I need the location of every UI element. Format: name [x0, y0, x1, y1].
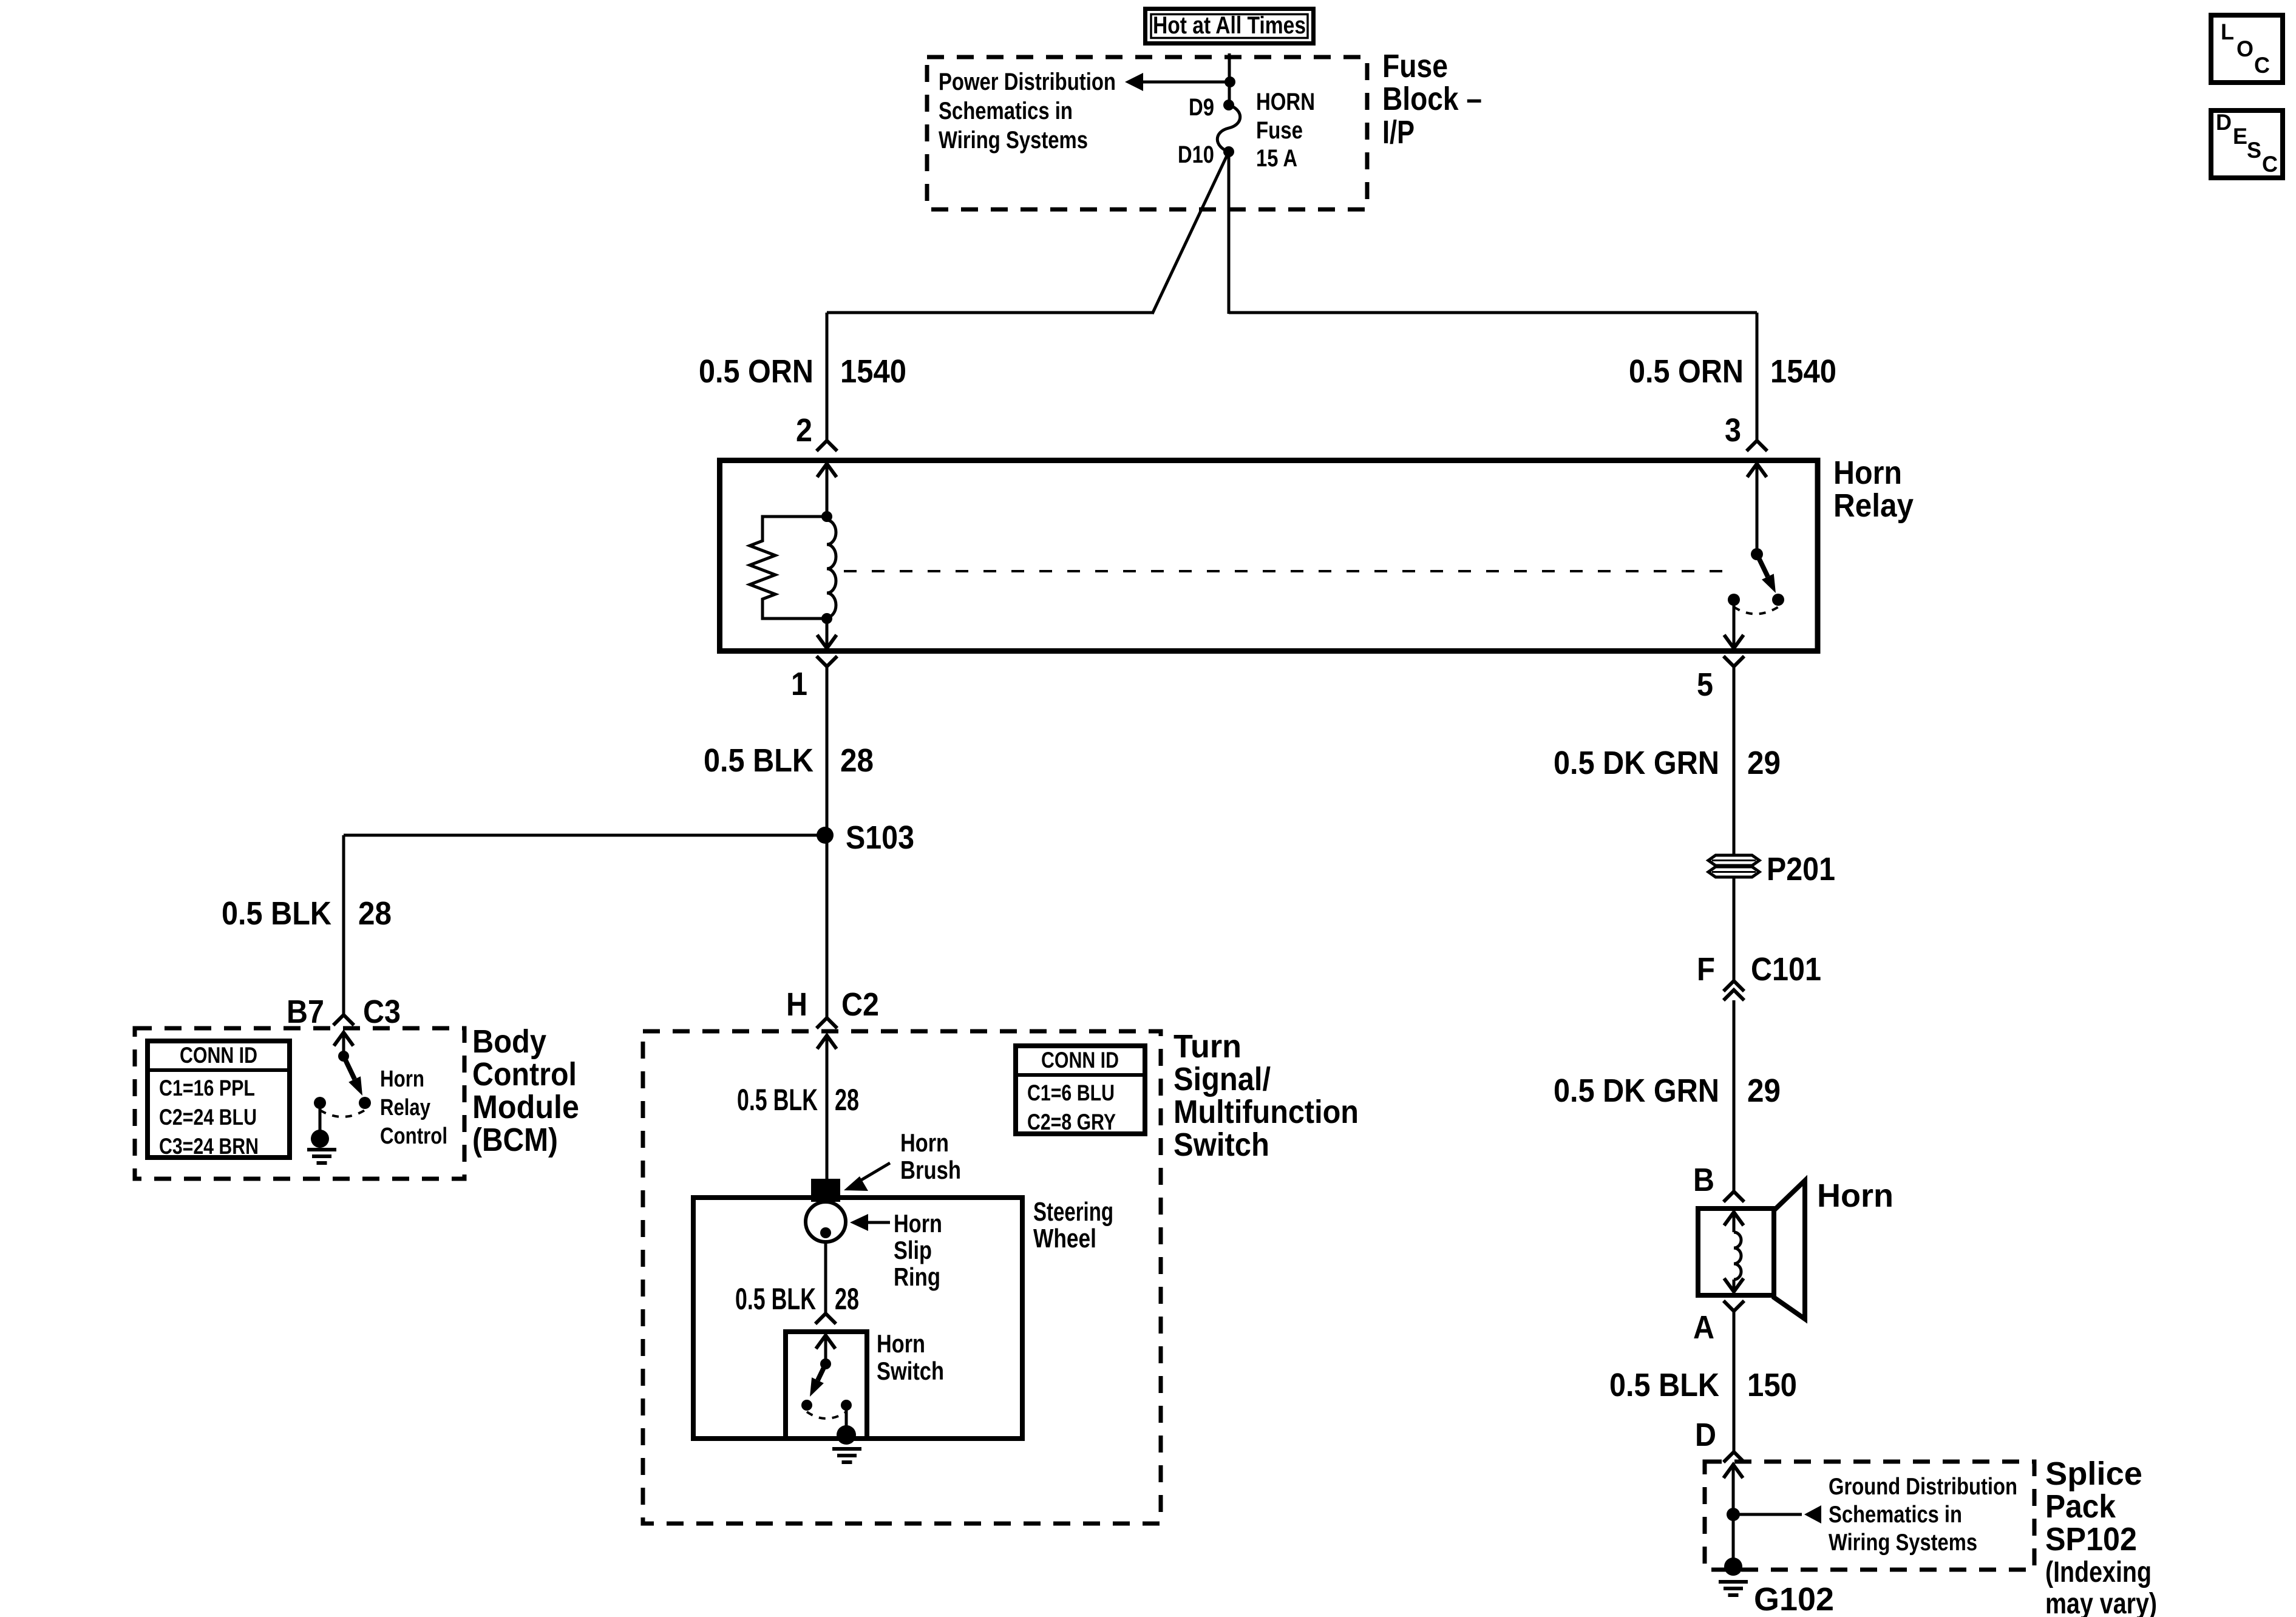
relay contact throw dashed arc — [1734, 607, 1778, 614]
svg-text:Schematics in: Schematics in — [1829, 1502, 1962, 1528]
svg-text:O: O — [2237, 36, 2254, 61]
svg-text:D: D — [1695, 1417, 1716, 1453]
fuse F1 HORN 15A element — [1217, 105, 1240, 152]
svg-text:S: S — [2247, 138, 2261, 163]
BCM horn relay control switch arm — [344, 1056, 355, 1079]
wire diagonal from D10 to left branch — [1152, 152, 1229, 314]
svg-text:E: E — [2233, 124, 2247, 149]
svg-text:0.5 BLK: 0.5 BLK — [735, 1282, 816, 1316]
svg-text:B: B — [1693, 1162, 1714, 1198]
svg-text:Module: Module — [472, 1089, 579, 1125]
relay coil bottom junction dot — [821, 613, 832, 624]
svg-text:C1=16 PPL: C1=16 PPL — [159, 1076, 255, 1100]
turn signal internal terminal arrow — [817, 1036, 837, 1049]
svg-text:C2=8 GRY: C2=8 GRY — [1027, 1110, 1116, 1134]
horn internal top arrow — [1724, 1212, 1744, 1225]
svg-text:0.5 ORN: 0.5 ORN — [699, 353, 813, 390]
svg-text:I/P: I/P — [1382, 114, 1415, 151]
svg-text:0.5 DK GRN: 0.5 DK GRN — [1554, 1073, 1719, 1109]
ground dot G102 — [1724, 1558, 1742, 1576]
svg-text:0.5 ORN: 0.5 ORN — [1629, 353, 1744, 390]
splice S103 — [817, 827, 834, 844]
svg-text:Horn: Horn — [380, 1066, 424, 1092]
steering wheel box — [693, 1198, 1022, 1439]
svg-text:SP102: SP102 — [2045, 1521, 2137, 1558]
svg-text:C1=6 BLU: C1=6 BLU — [1027, 1080, 1115, 1105]
body control module dashed outline — [135, 1028, 464, 1179]
LOC reference box — [2211, 15, 2283, 83]
BCM CONN ID table — [148, 1041, 290, 1158]
DESC reference box — [2211, 110, 2283, 178]
svg-text:Ground Distribution: Ground Distribution — [1829, 1474, 2017, 1500]
svg-text:Fuse: Fuse — [1382, 48, 1448, 84]
relay coil top junction dot — [821, 511, 832, 522]
horn relay K1 box — [720, 461, 1818, 651]
svg-text:Horn: Horn — [900, 1128, 949, 1157]
svg-text:C3=24 BRN: C3=24 BRN — [159, 1134, 259, 1159]
svg-text:0.5 DK GRN: 0.5 DK GRN — [1554, 745, 1719, 781]
svg-text:Multifunction: Multifunction — [1173, 1094, 1359, 1130]
fuse block I/P dashed outline — [927, 57, 1367, 209]
svg-text:Block –: Block – — [1382, 81, 1482, 117]
svg-text:28: 28 — [358, 895, 392, 932]
svg-text:28: 28 — [840, 742, 874, 779]
svg-text:L: L — [2221, 19, 2234, 44]
wire pin 5 down to P201 — [1733, 666, 1736, 855]
horn internal bottom arrow — [1724, 1278, 1744, 1292]
horn brush contact block — [811, 1179, 840, 1202]
wire horizontal to relay pin 3 — [1229, 311, 1757, 314]
svg-text:D10: D10 — [1178, 141, 1214, 168]
relay actuation dashed link — [844, 570, 1727, 572]
horn bell — [1773, 1181, 1805, 1319]
svg-text:0.5 BLK: 0.5 BLK — [1609, 1367, 1719, 1403]
svg-text:P201: P201 — [1767, 851, 1835, 887]
svg-text:1540: 1540 — [840, 353, 906, 390]
wire branch to BCM — [344, 834, 825, 837]
svg-text:A: A — [1693, 1309, 1714, 1346]
svg-text:28: 28 — [835, 1282, 859, 1316]
svg-text:Horn: Horn — [1817, 1178, 1894, 1214]
svg-text:150: 150 — [1747, 1367, 1797, 1403]
svg-text:CONN ID: CONN ID — [1041, 1048, 1119, 1073]
svg-text:5: 5 — [1697, 666, 1713, 703]
horn brush pointer arrow — [857, 1163, 890, 1182]
connector caret pin 2 — [817, 441, 837, 451]
slip ring pickup dot — [820, 1227, 831, 1238]
BCM switch ground contact dot — [314, 1097, 326, 1109]
svg-text:Horn: Horn — [894, 1209, 942, 1238]
junction dot at fuse top — [1224, 76, 1235, 87]
relay movable contact arm — [1757, 554, 1768, 577]
horn switch arm — [818, 1364, 826, 1380]
inline connector C101 double caret — [1724, 981, 1744, 991]
wire splice to ground G102 — [1732, 1514, 1735, 1562]
svg-text:Wiring Systems: Wiring Systems — [939, 127, 1088, 154]
ground symbol G102 — [1719, 1580, 1748, 1584]
wire down to horn brush — [826, 1036, 829, 1179]
svg-text:D9: D9 — [1189, 94, 1214, 121]
relay coil winding — [827, 520, 836, 617]
svg-text:B7: B7 — [287, 994, 324, 1030]
wire P201 down to C101 — [1733, 877, 1736, 980]
svg-text:Wiring Systems: Wiring Systems — [1829, 1530, 1977, 1556]
svg-text:Fuse: Fuse — [1256, 117, 1303, 144]
svg-text:C3: C3 — [363, 994, 401, 1030]
relay suppression resistor — [750, 517, 827, 619]
connector caret pin 1 — [817, 656, 837, 666]
wire down to relay pin 2 — [826, 313, 829, 441]
svg-text:Slip: Slip — [894, 1236, 932, 1264]
svg-text:1540: 1540 — [1770, 353, 1836, 390]
svg-text:Hot at All Times: Hot at All Times — [1153, 12, 1306, 39]
svg-text:Control: Control — [380, 1124, 447, 1149]
svg-text:0.5 BLK: 0.5 BLK — [222, 895, 331, 932]
svg-text:(BCM): (BCM) — [472, 1122, 558, 1158]
horn switch pivot dot — [820, 1358, 831, 1369]
wire down to BCM connector — [342, 835, 345, 1015]
svg-text:29: 29 — [1747, 745, 1781, 781]
connector caret pin 5 — [1724, 656, 1744, 666]
horn coil — [1734, 1232, 1741, 1280]
wire horn A down to splice pack — [1733, 1311, 1736, 1451]
svg-text:3: 3 — [1725, 412, 1741, 449]
svg-text:28: 28 — [835, 1083, 859, 1117]
svg-text:C: C — [2254, 53, 2270, 78]
Hot at All Times power label box — [1146, 9, 1314, 44]
wire horizontal to relay pin 2 — [827, 311, 1153, 314]
fuse terminal D10 dot — [1223, 146, 1234, 157]
horn M1 box — [1698, 1209, 1774, 1295]
BCM switch pivot dot — [338, 1051, 349, 1062]
relay pin 2 internal terminal arrow — [817, 464, 837, 477]
svg-text:0.5 BLK: 0.5 BLK — [737, 1083, 818, 1117]
horn switch throw dashed arc — [807, 1412, 846, 1419]
svg-text:Horn: Horn — [1833, 455, 1902, 491]
connector caret B7/C3 — [333, 1015, 354, 1025]
BCM ground dot — [311, 1130, 329, 1148]
connector caret splice D — [1724, 1452, 1744, 1462]
svg-text:Signal/: Signal/ — [1173, 1061, 1271, 1097]
ground distribution reference arrow — [1733, 1513, 1802, 1516]
svg-text:Control: Control — [472, 1056, 577, 1093]
connector caret horn A — [1724, 1301, 1744, 1311]
relay output contact dot — [1728, 594, 1740, 606]
wire down to relay pin 3 — [1756, 313, 1759, 441]
horn switch box — [786, 1332, 867, 1439]
relay pin 1 internal terminal arrow — [817, 635, 837, 648]
svg-text:Ring: Ring — [894, 1263, 940, 1291]
wire fuse D10 down — [1228, 152, 1231, 314]
wire C101 down to horn — [1733, 1000, 1736, 1190]
svg-text:CONN ID: CONN ID — [180, 1043, 257, 1068]
horn switch right contact dot — [841, 1400, 852, 1411]
ground symbol (BCM) — [307, 1148, 336, 1151]
svg-text:Schematics in: Schematics in — [939, 98, 1073, 124]
wire contact to BCM ground — [319, 1103, 322, 1130]
svg-text:Power Distribution: Power Distribution — [939, 69, 1116, 95]
wire from hot feed to fuse D9 — [1228, 53, 1231, 105]
svg-text:Turn: Turn — [1173, 1028, 1241, 1065]
pass-through grommet P201 — [1708, 855, 1759, 866]
svg-text:C: C — [2262, 152, 2278, 177]
svg-text:(Indexing: (Indexing — [2045, 1556, 2152, 1588]
wire pin1 down to H C2 — [826, 666, 829, 1018]
svg-text:C2=24 BLU: C2=24 BLU — [159, 1105, 257, 1130]
svg-text:H: H — [786, 986, 807, 1023]
connector caret at horn switch — [815, 1314, 836, 1324]
svg-text:15 A: 15 A — [1256, 145, 1297, 172]
svg-text:C101: C101 — [1751, 951, 1821, 988]
wire contact to horn switch ground — [845, 1405, 848, 1426]
BCM switch NO contact dot — [359, 1097, 371, 1109]
svg-text:Brush: Brush — [900, 1156, 961, 1184]
horn switch ground dot — [837, 1425, 856, 1445]
svg-text:2: 2 — [796, 412, 812, 449]
fuse terminal D9 dot — [1223, 100, 1234, 110]
svg-text:F: F — [1697, 951, 1715, 988]
relay common contact dot — [1751, 548, 1763, 560]
connector caret pin 3 — [1747, 441, 1767, 451]
svg-text:29: 29 — [1747, 1073, 1781, 1109]
BCM switch throw dashed arc — [320, 1110, 365, 1117]
svg-text:Body: Body — [472, 1023, 546, 1060]
horn slip ring pointer arrow — [868, 1221, 890, 1224]
svg-text:1: 1 — [791, 666, 807, 702]
svg-text:D: D — [2216, 110, 2232, 135]
horn switch left contact dot — [801, 1400, 812, 1411]
svg-text:Switch: Switch — [877, 1357, 944, 1385]
power distribution reference arrow — [1125, 73, 1143, 91]
relay NO contact dot (arm end) — [1772, 594, 1784, 606]
ground symbol (horn switch) — [832, 1447, 861, 1451]
svg-text:Wheel: Wheel — [1033, 1224, 1096, 1253]
svg-text:Switch: Switch — [1173, 1127, 1269, 1163]
connector caret horn B — [1724, 1192, 1744, 1202]
wire slip ring to horn switch — [824, 1242, 827, 1314]
svg-text:Horn: Horn — [877, 1329, 925, 1358]
relay pin 3 internal terminal arrow — [1747, 464, 1767, 477]
splice junction dot — [1727, 1508, 1740, 1521]
svg-text:Splice: Splice — [2045, 1456, 2142, 1492]
svg-text:HORN: HORN — [1256, 89, 1315, 115]
relay pin 5 internal wire with down arrow — [1724, 635, 1744, 648]
svg-text:S103: S103 — [846, 819, 914, 856]
splice internal terminal arrow — [1724, 1465, 1743, 1478]
svg-text:Relay: Relay — [380, 1095, 430, 1120]
svg-text:Relay: Relay — [1833, 487, 1914, 524]
svg-text:G102: G102 — [1754, 1581, 1834, 1617]
svg-text:0.5 BLK: 0.5 BLK — [704, 742, 813, 779]
splice pack SP102 dashed outline — [1705, 1462, 2034, 1570]
svg-text:Steering: Steering — [1033, 1197, 1113, 1227]
horn switch terminal arrow — [816, 1335, 835, 1349]
horn slip ring — [806, 1202, 846, 1242]
turn signal / multifunction switch dashed outline — [643, 1031, 1161, 1524]
svg-text:Pack: Pack — [2045, 1488, 2116, 1525]
svg-text:C2: C2 — [841, 986, 879, 1023]
connector caret H/C2 — [817, 1018, 837, 1028]
BCM internal terminal arrow — [334, 1032, 353, 1046]
svg-text:may vary): may vary) — [2045, 1588, 2157, 1617]
turn signal CONN ID table — [1016, 1046, 1145, 1134]
